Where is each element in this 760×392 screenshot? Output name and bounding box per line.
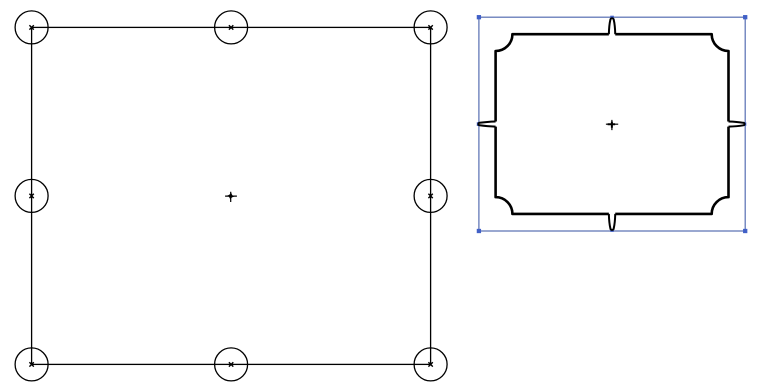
magnet circle 3 xyxy=(414,11,447,44)
magnet circle 1 xyxy=(15,11,48,44)
magnet x marker 3 xyxy=(428,25,432,29)
plaque bottom spike xyxy=(609,212,615,230)
selection bounding box xyxy=(479,17,745,231)
magnet circle 4 xyxy=(15,179,48,212)
magnet circle 5 xyxy=(414,179,447,212)
selection handle 7 xyxy=(610,229,613,232)
plaque left spike xyxy=(478,121,498,126)
magnet x marker 5 xyxy=(428,194,432,198)
magnet circle 2 xyxy=(215,11,248,44)
magnet x marker 6 xyxy=(29,362,33,366)
magnet x marker 4 xyxy=(29,194,33,198)
rectangle center star marker xyxy=(225,192,237,202)
selection handle 5 xyxy=(743,122,746,125)
magnet x marker 7 xyxy=(229,362,233,366)
selection handle 4 xyxy=(477,122,481,126)
selection handle 6 xyxy=(477,229,481,233)
plaque right spike xyxy=(726,121,745,126)
magnet circle 6 xyxy=(15,348,48,381)
magnet x marker 1 xyxy=(29,25,33,29)
rectangle shape outline xyxy=(32,27,431,364)
selection handle 3 xyxy=(743,15,747,19)
plaque top spike xyxy=(609,18,615,36)
plaque center cross marker xyxy=(606,120,618,130)
selection handle 8 xyxy=(743,229,747,233)
magnet x marker 2 xyxy=(229,25,233,29)
plaque frame shape xyxy=(496,34,729,214)
magnet circle 7 xyxy=(215,348,248,381)
selection handle 2 xyxy=(610,16,614,20)
magnet circle 8 xyxy=(414,348,447,381)
selection handle 1 xyxy=(477,15,481,19)
magnet x marker 8 xyxy=(428,362,432,366)
